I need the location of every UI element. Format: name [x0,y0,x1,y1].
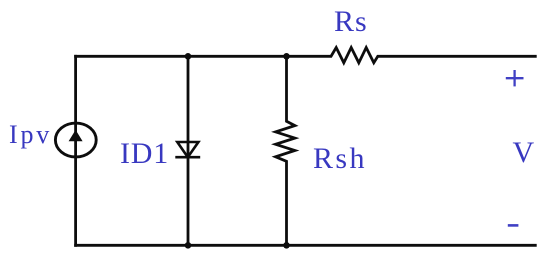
svg-text:Rsh: Rsh [313,142,367,175]
svg-text:Rs: Rs [334,5,368,38]
svg-text:ID1: ID1 [120,137,169,170]
svg-text:Ipv: Ipv [9,120,52,149]
svg-text:V: V [513,136,535,169]
